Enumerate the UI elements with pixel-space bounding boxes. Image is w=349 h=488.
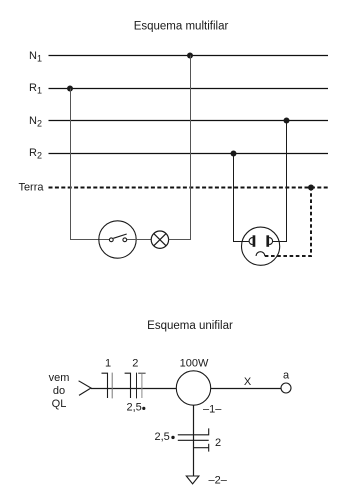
outlet right slot bump	[269, 238, 273, 245]
outlet right slot	[266, 235, 269, 247]
switch point a	[281, 383, 291, 393]
circuit 1 conduit: phase mark	[111, 373, 113, 399]
svg-text:–2–: –2–	[209, 475, 228, 487]
svg-text:Esquema multifilar: Esquema multifilar	[134, 21, 229, 33]
circuit 2 conduit: ground mark (T)	[138, 373, 145, 398]
circuit 2 conduit: neutral mark (hooked)	[125, 373, 131, 398]
circuit 2 conduit: phase mark	[136, 373, 138, 399]
svg-text:100W: 100W	[180, 358, 209, 370]
feeder chevron	[79, 381, 91, 396]
junction dot on R2	[231, 151, 237, 157]
outlet (tomada)	[242, 227, 280, 265]
junction dot on N2	[284, 118, 290, 124]
lamp L1	[151, 231, 168, 248]
wire: main run to lamp	[91, 388, 176, 390]
outlet ground dome	[256, 252, 265, 256]
svg-text:–1–: –1–	[203, 404, 222, 416]
lamp 100W	[176, 371, 210, 405]
svg-text:X: X	[244, 376, 252, 388]
outlet left slot	[253, 235, 256, 247]
wire lamp to N1	[169, 56, 191, 240]
outlet left slot bump	[249, 238, 253, 245]
wire N1 bus	[49, 55, 329, 57]
junction dot on R1	[67, 86, 73, 92]
circuit 1 conduit: neutral mark (hooked)	[102, 373, 108, 398]
junction dot on N1	[187, 53, 193, 59]
wire N2 down to outlet	[272, 121, 286, 242]
drop conduit: neutral mark (hooked)	[178, 428, 209, 434]
wire R2 down to outlet	[234, 154, 250, 242]
drop conduit: phase mark	[178, 439, 209, 441]
svg-text:a: a	[283, 369, 290, 381]
svg-text:do: do	[53, 385, 65, 397]
svg-text:Esquema unifilar: Esquema unifilar	[147, 320, 233, 332]
svg-text:Terra: Terra	[18, 182, 44, 194]
wire R1 down to switch	[71, 89, 110, 240]
svg-text:2: 2	[132, 358, 138, 370]
wire R2 bus	[49, 153, 329, 155]
svg-text:2,5: 2,5	[155, 431, 170, 443]
wire: lamp to switch point	[211, 388, 282, 390]
wire N2 bus	[49, 120, 329, 122]
switch S1	[99, 221, 136, 258]
wire: lamp drop to ground	[193, 405, 195, 476]
wire Terra bus (dashed)	[49, 187, 331, 189]
svg-text:QL: QL	[52, 398, 67, 410]
wire R1 bus	[49, 88, 329, 90]
svg-text:2: 2	[215, 437, 221, 449]
svg-text:vem: vem	[49, 372, 70, 384]
wire switch to lamp	[127, 239, 151, 241]
drop conduit: ground mark (T)	[193, 444, 209, 452]
ground symbol	[186, 476, 199, 484]
svg-text:1: 1	[105, 358, 111, 370]
svg-text:2,5: 2,5	[127, 402, 142, 414]
dashed ground wire: outlet to Terra	[265, 188, 311, 257]
junction dot on Terra	[308, 185, 314, 191]
